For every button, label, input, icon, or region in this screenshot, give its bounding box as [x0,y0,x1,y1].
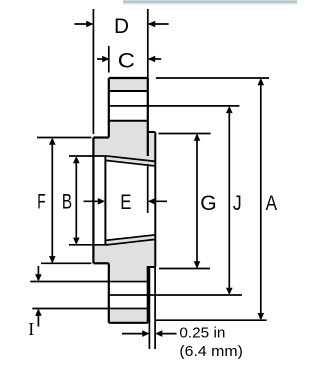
extension line, dim F bottom [41,262,91,264]
flange ring section fill (bottom land) [109,310,148,323]
dim G arrowhead top [194,134,201,141]
bore edge (top) + extension line dim B [69,155,105,157]
dim E arrowhead right [148,198,155,205]
svg-text:B: B [62,189,72,213]
dim C leader left [97,58,108,60]
svg-text:G: G [200,191,216,215]
svg-text:I: I [28,319,34,339]
lap flare OD edge (bottom) [147,266,156,268]
dim D arrowhead left [86,21,93,28]
extension line, dims D and C right (ring front face) [147,9,149,78]
extension line, dim A bottom [156,319,267,321]
dim C arrowhead left [102,56,109,63]
dim C arrowhead right [148,56,155,63]
svg-text:C: C [118,48,135,72]
dim F arrowhead top [49,138,56,145]
extension line, dim 0.25in right [154,268,156,350]
dim G line [196,135,198,268]
stub pipe OD taper line (upper) [105,156,155,162]
dim B line [75,158,77,244]
svg-text:D: D [114,14,129,38]
ring left face edge (lower) [108,263,110,323]
dim C leader right [149,58,161,60]
flange ring section fill (top land) [109,78,148,91]
svg-text:0.25 in: 0.25 in [179,325,225,341]
dim B arrowhead bottom [73,238,80,245]
flange ring section fill (lower middle) [109,245,148,280]
dim F line [51,139,53,262]
ring OD edge (top) [109,77,148,79]
dim A arrowhead top [258,78,265,85]
dim J line [228,107,230,293]
svg-text:E: E [120,190,131,214]
gray wedge between bore edge and pipe OD (upper) [105,156,147,161]
dim E leader right [149,200,167,202]
stub-end lap flare fill (upper) [148,132,156,166]
dim G arrowhead bottom [194,261,201,268]
ring right face edge (lower) [147,266,149,323]
dim I arrowhead top [35,274,42,281]
bolt hole centerline (top) + extension line dim J [109,105,240,107]
hub left face edge [92,138,94,264]
lap flare OD edge (top) [148,131,156,133]
hub section fill (upper) [93,138,108,157]
stub pipe bore taper line (lower) [105,235,155,241]
dim A line [260,80,262,319]
extension line, dim G bottom [159,268,210,270]
dim I leader bottom [37,310,39,327]
svg-text:(6.4 mm): (6.4 mm) [179,344,243,360]
dim 0.25in arrowhead right [155,330,162,337]
bore edge (bottom) + extension line dim B [69,244,105,246]
hub OD edge (bottom) [93,262,108,264]
extension line, dim F top [37,137,91,139]
bolt hole centerline (bottom) + extension line dim J [109,294,242,296]
stub pipe bore taper line (upper) [105,160,155,166]
dim E arrowhead left [98,198,105,205]
gray wedge between bore edge and pipe OD (lower) [105,240,147,245]
dim I arrowhead bottom [35,309,42,316]
stub pipe wall fill (lower, tapered) [105,235,155,245]
dim D leader right [149,23,169,25]
extension line, dim A top [156,77,269,79]
top blue rule [123,1,297,5]
extension line, dim C left (ring left face) [108,46,110,73]
stub pipe OD taper line (lower) [105,239,155,245]
ring right face edge (upper) [147,78,149,156]
svg-text:F: F [37,189,45,213]
dim J arrowhead top [226,106,233,113]
extension line, dim G top [159,133,211,135]
hub OD edge (top) [93,136,108,138]
flange ring section fill (upper middle) [109,121,148,156]
extension line, dim 0.25in left [148,268,150,350]
bolt hole lower edge (bottom) + extension line dim I [32,308,148,310]
bolt hole upper edge (bottom) + extension line dim I [30,281,148,283]
extension line, dim E right (in bore) [147,164,149,213]
stub pipe wall fill (upper, tapered) [105,156,155,166]
dim 0.25in leader right [157,333,177,335]
dim 0.25in arrowhead left [142,330,149,337]
stub pipe end face edge [104,156,106,245]
dim A arrowhead bottom [258,313,265,320]
svg-text:J: J [233,191,242,215]
lap flare face edge (right) [154,132,156,267]
bolt hole upper edge (top) [109,90,148,92]
dim D leader left [74,23,92,25]
dim J arrowhead bottom [226,288,233,295]
stub-end lap flare fill (lower) [148,235,156,267]
ring OD edge (bottom) [109,322,148,324]
bolt hole lower edge (top) [109,120,148,122]
dim 0.25in leader left [122,333,148,335]
ring left face edge (upper) [108,78,110,138]
svg-text:A: A [266,191,278,215]
dim E leader left [84,200,104,202]
dim D arrowhead right [148,21,155,28]
dim I leader top [37,266,39,280]
extension line, dim D left (flange back face) [92,9,94,134]
dim B arrowhead top [73,156,80,163]
hub section fill (lower) [93,245,108,263]
dim F arrowhead bottom [49,256,56,263]
